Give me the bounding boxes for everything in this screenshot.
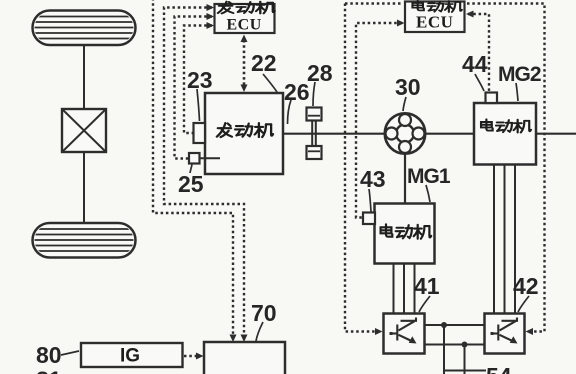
inverter 42 box (485, 314, 525, 354)
svg-text:ECU: ECU (416, 13, 453, 32)
leader to battery 54 (444, 370, 486, 372)
leader line label MG2 (516, 83, 518, 101)
leader line label 23 (197, 89, 200, 121)
svg-text:IG: IG (120, 346, 140, 367)
arrow into box 70 (line B) (241, 335, 248, 343)
dashed bus B: engine ECU to HV-ECU 70 (164, 8, 244, 337)
arrow into engine ECU (line D) (207, 22, 215, 29)
shaft planetary to MG2 (426, 133, 475, 135)
leader line label 22 (263, 74, 277, 92)
leader line label 28 (313, 82, 315, 106)
damper 28: shaft bar (312, 121, 316, 147)
svg-text:80: 80 (36, 342, 62, 368)
planetary gear 30: ring gear (385, 113, 425, 153)
svg-text:44: 44 (462, 51, 488, 77)
svg-text:70: 70 (251, 300, 277, 326)
battery wire from lower node (464, 345, 466, 374)
wheel (bottom) (30, 223, 138, 258)
inverter 41 IGBT symbol (390, 318, 418, 344)
leader line label 80 (61, 351, 79, 355)
crank sensor 25 (189, 153, 200, 164)
engine block 22 (205, 93, 283, 174)
motor MG1 box (375, 204, 435, 264)
DC link lower wire 41-42 (425, 344, 485, 346)
dashed arrow IG to box 70 (184, 355, 197, 357)
motor zone dashed boundary: top-left segment (345, 4, 403, 332)
svg-text:ECU: ECU (227, 17, 262, 34)
svg-text:28: 28 (307, 60, 333, 86)
throttle device 23 (194, 123, 206, 143)
rotation sensor 43 (363, 213, 375, 225)
differential / gear box with X (62, 109, 106, 152)
three-phase lines MG1 to inverter 41 (394, 264, 415, 314)
text 电动机 (motor ECU box) (412, 1, 461, 12)
arrow into engine ECU (line C) (207, 13, 215, 20)
svg-text:23: 23 (187, 67, 213, 93)
svg-text:25: 25 (178, 171, 204, 197)
rotation sensor 44 (486, 93, 498, 104)
svg-text:30: 30 (395, 74, 421, 100)
junction node lower (462, 342, 468, 348)
svg-text:54: 54 (486, 363, 512, 374)
svg-text:41: 41 (414, 273, 440, 299)
motor MG2 box (474, 103, 536, 165)
leader line label 41 (419, 296, 430, 312)
planetary gear 30: sun gear (396, 125, 414, 143)
leader line label 43 (369, 189, 371, 212)
arrow into box 70 (line A) (230, 335, 237, 343)
ignition switch IG box (81, 343, 183, 367)
svg-text:MG2: MG2 (498, 63, 541, 86)
three-phase lines MG2 to inverter 42 (494, 165, 515, 314)
dashed bus A: left outer dashed line from top edge down and over to HV-ECU 70 (153, 0, 233, 336)
leader line label 26 (288, 100, 292, 124)
sensor 25 lead into engine (200, 157, 221, 159)
dashed line D: device 23 to engine ECU (184, 26, 212, 134)
arrow into engine ECU (line B) (207, 4, 215, 11)
dashed line F: resolver 44 to motor ECU (468, 14, 489, 91)
dashed line C: sensor 25 to engine ECU (175, 17, 213, 159)
crankshaft engine to planetary (283, 133, 385, 135)
sun shaft planetary to MG1 (404, 154, 406, 204)
DC link upper wire 41-42 (425, 324, 485, 326)
dashed double arrow engine ECU - engine (243, 40, 246, 86)
svg-text:26: 26 (284, 79, 310, 105)
planetary gear 30: planet pinions (399, 114, 411, 126)
motor ECU box (405, 2, 465, 33)
text 电动机 (MG2 box) (481, 119, 531, 132)
HV ECU box 70 (204, 342, 285, 374)
svg-text:MG1: MG1 (407, 165, 451, 188)
battery wire from upper node (443, 325, 445, 374)
junction node upper (441, 322, 447, 328)
engine ECU box (215, 4, 275, 33)
leader line label MG1 (426, 185, 430, 202)
svg-text:81: 81 (36, 367, 62, 374)
inverter 42 IGBT symbol (491, 318, 519, 344)
text 发动机 (engine block) (217, 123, 273, 137)
axle shaft top wheel to differential (83, 45, 85, 109)
svg-text:42: 42 (513, 273, 539, 299)
damper 28: upper block (307, 108, 322, 121)
text 电动机 (MG1 box) (381, 224, 432, 238)
damper 28: lower block (307, 146, 322, 159)
output shaft MG2 to right edge (536, 133, 576, 135)
leader line label 42 (518, 296, 529, 312)
leader line label 44 (475, 74, 484, 91)
text 发动机 (engine ECU box) (218, 2, 275, 14)
axle shaft differential to bottom wheel (83, 152, 85, 223)
arrow into motor ECU (line F) (466, 11, 474, 18)
svg-text:22: 22 (251, 50, 277, 76)
inverter 41 box (384, 314, 425, 354)
arrow into inverter 42 (zone boundary) (526, 328, 534, 335)
leader line label 25 (190, 165, 192, 174)
leader line label 30 (403, 97, 406, 111)
leader line label 70 (256, 322, 263, 341)
svg-text:43: 43 (360, 166, 386, 192)
dashed line E: resolver 43 to motor ECU (356, 23, 402, 218)
arrow into motor ECU (line E) (397, 20, 405, 27)
motor zone dashed boundary: top-right and right edge (467, 4, 545, 332)
wheel (top) (30, 11, 138, 46)
arrow into inverter 41 (zone boundary) (375, 328, 383, 335)
